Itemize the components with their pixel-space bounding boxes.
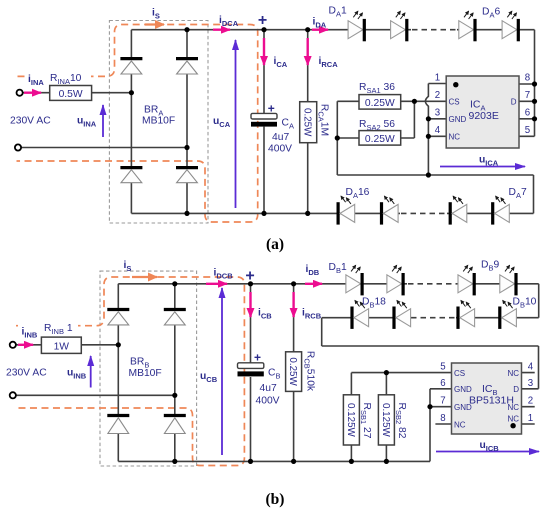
svg-text:5: 5 [440,362,445,373]
svg-text:1: 1 [528,413,533,424]
wire: top rail dashed gap (b) [408,283,456,285]
wire: IC right NC stubs (b) [522,373,535,424]
wire: RCA branch (a) [307,30,309,214]
resistor RSA2 box 0.25W [359,131,401,146]
orange arrow iS (a) [145,23,164,25]
wire: top rail (b) [118,283,538,285]
magenta arrow iINB [18,344,33,346]
resistor RCB box 0.25W (vertical) [286,352,302,392]
svg-text:MB10F: MB10F [129,368,162,379]
svg-text:5: 5 [525,125,530,136]
LED DA7 [493,196,510,225]
svg-text:0.125W: 0.125W [345,403,356,438]
svg-text:0.25W: 0.25W [287,357,298,386]
svg-text:(a): (a) [266,236,284,253]
svg-text:8: 8 [525,73,530,84]
bridge rectifier BRB diode bottom-right [164,416,186,434]
svg-text:230V AC: 230V AC [6,368,47,379]
wire: CA capacitor branch (a) [263,30,265,214]
wire: top rail dashed gap (a) [412,29,456,31]
terminal 1 (a) [17,90,23,96]
svg-text:1W: 1W [54,342,70,353]
bridge rectifier BRB diode bottom-left [107,416,129,434]
resistor RSB1 box 0.125W (vertical) [343,395,359,445]
svg-text:0.25W: 0.25W [302,108,313,137]
svg-text:+: + [254,351,261,365]
svg-text:6: 6 [440,378,445,389]
magenta arrow iDCA [213,29,230,31]
wire: RCB branch (b) [293,284,295,462]
violet arrow uICA [440,166,525,168]
svg-text:CS: CS [449,97,460,106]
svg-text:NC: NC [449,132,461,141]
wire: CB capacitor branch (b) [250,284,252,462]
wire: CS wire to pin5 (b) [351,372,451,374]
wire: right lower drop (a) [533,175,535,213]
magenta arrow iDA [312,29,328,31]
LED DA16 (bottom row, faces left) [338,196,355,225]
violet arrow uCA [235,40,237,208]
wire: right bracket RSA1-RSA2 (a) [401,101,415,138]
svg-text:NC: NC [454,420,466,429]
wire: right-side drop to IC pins (a) [534,30,536,137]
wire: pin6-pin7 bracket down to rail (b) [429,389,431,462]
svg-text:2: 2 [528,396,533,407]
LED DA8 [450,196,467,225]
magenta arrow iRCA [307,38,309,65]
magenta arrow iDCB [206,283,227,285]
svg-text:0.125W: 0.125W [380,403,391,438]
LED DB10 [500,300,517,329]
svg-text:(b): (b) [266,491,285,508]
wire: IC left stubs pin6 pin7 pin8 (b) [430,389,452,424]
wire: IC left pin stubs 1,3,4 (a) [428,84,446,137]
LED DB1 [346,265,362,295]
violet arrow uICB [436,451,539,453]
wire: bottom rail dashed gap (a) [401,212,447,214]
LED DB18 (row2, faces left) [352,300,369,329]
wire: top rail (a) [131,29,534,31]
bridge rectifier BRA diode bottom-left [120,168,142,183]
svg-text:6: 6 [525,108,530,119]
capacitor CA plates [251,113,277,126]
wire: bridge right column (a) [186,30,188,214]
svg-text:+: + [268,102,275,116]
junction nodes (a) [129,27,537,216]
LED DB9 [500,265,516,295]
wire: input neutral wire (b) [16,394,175,396]
svg-text:0.5W: 0.5W [59,89,83,100]
orange dashed current loop iS (a) [17,25,258,223]
wire: input live wire through RINA (a) [23,92,132,94]
svg-text:D: D [511,97,517,106]
wire: input live wire through RINB (b) [16,344,118,346]
svg-text:400V: 400V [268,144,292,155]
svg-text:230V AC: 230V AC [10,116,51,127]
wire: mid horizontal rail (a) [337,174,533,176]
LED DA15 [382,196,399,225]
wire: IC right pin stubs (a) [519,84,535,136]
wire: right connector row1-row2 (b) [538,284,540,318]
terminal 2 (b) [10,392,16,398]
svg-text:8: 8 [440,413,445,424]
svg-text:4: 4 [528,362,534,373]
svg-text:NC: NC [507,369,519,378]
wire: second LED row (b) [322,317,539,319]
LED DA6 [502,11,518,41]
wire: bottom rail (a) [131,212,533,214]
orange dashed current loop iS (b) [16,277,244,466]
bridge rectifier BRB diode top-left [107,310,129,325]
violet arrow uCB [221,288,223,455]
wire: bridge left column (b) [117,284,119,462]
svg-text:0.25W: 0.25W [365,98,395,109]
svg-text:3: 3 [528,378,533,389]
IC U=ICA 9203E body [446,76,519,148]
gray dashed box around bridge BRA [109,21,208,224]
magenta arrow iCB [249,292,251,317]
resistor RINA box 0.5W [50,86,92,101]
junction nodes (b) [116,281,433,464]
wire: RSB1 RSB2 top drops (b) [351,373,386,395]
wire: input neutral wire (a) [21,147,187,149]
wire: RSB1 RSB2 bottom drops (b) [351,445,386,461]
LED DB8 [458,265,474,295]
svg-text:GND: GND [449,115,467,124]
capacitor CB plates [238,363,264,377]
svg-text:4: 4 [435,125,441,136]
svg-text:2: 2 [435,90,440,101]
resistor RINB box 1W [41,337,81,353]
LED DB17 [394,300,411,329]
magenta arrow iRCB [292,292,294,317]
gray dashed box around bridge BRB [100,271,197,466]
svg-text:GND: GND [454,385,472,394]
magenta arrow iDB [305,283,322,285]
svg-text:+: + [245,268,254,285]
svg-text:0.25W: 0.25W [365,134,395,145]
bridge rectifier BRB diode top-right [164,310,186,325]
wire: row2 left drop and run to IC pin D (b) [322,318,539,389]
magenta arrow iCA [263,38,265,65]
label mask under RINB text [40,320,78,333]
svg-text:1: 1 [435,73,440,84]
wire: second row dashed gap (b) [411,317,456,319]
wire: bottom rail (b) [118,460,430,462]
magenta arrow iINA [24,91,41,93]
bridge rectifier BRA diode bottom-right [176,168,198,183]
LED DB11 [458,300,475,329]
resistor RSA1 box 0.25W [359,95,401,110]
svg-text:7: 7 [525,90,530,101]
svg-text:7: 7 [440,396,445,407]
svg-text:9203E: 9203E [469,110,499,122]
LED DA1 [348,11,364,41]
svg-text:MB10F: MB10F [142,116,175,127]
resistor RCA box 0.25W (vertical) [300,102,317,143]
bridge rectifier BRA diode top-right [176,59,198,74]
svg-text:NC: NC [507,415,519,424]
violet arrow uINA [102,105,104,137]
IC B BP5131H body [452,363,522,434]
LED DA2 [391,11,407,41]
wire: left bracket RSA1-RSA2 down to mid rail (a) [337,101,359,175]
terminal 2 (a) [15,144,21,150]
svg-text:+: + [258,12,267,29]
svg-text:D: D [513,385,519,394]
svg-text:400V: 400V [256,396,280,407]
resistor RSB2 box 0.125W (vertical) [378,395,394,445]
LED DB2 [387,265,403,295]
label mask under RINA text [46,70,91,83]
wire: RSA1 node to IC pin2 CS (a) [414,100,446,102]
LED DA5 [459,11,475,41]
wire: bridge left column (a) [130,30,132,214]
wire: left bracket pin1-3-4 with hop over CS wire (a) [425,84,428,176]
orange arrow iS (b) [132,276,157,278]
svg-text:3: 3 [435,108,440,119]
bridge rectifier BRA diode top-left [120,59,142,74]
svg-text:CS: CS [454,369,465,378]
svg-text:4u7: 4u7 [272,132,289,143]
svg-text:BP5131H: BP5131H [469,395,514,407]
wire: bridge right column (b) [174,284,176,462]
violet arrow uINB [90,356,92,388]
svg-text:4u7: 4u7 [260,383,277,394]
terminal 1 (b) [10,342,16,348]
